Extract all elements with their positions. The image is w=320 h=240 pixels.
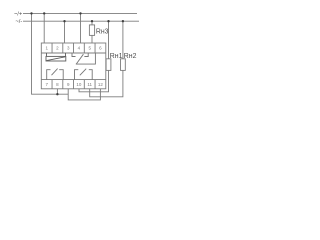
contact group top (pins 4-5-6) [72,53,95,64]
wire Rn2 drop from rail2 [122,21,124,59]
rail ~/+ [23,12,137,14]
node rail2 / Rn1 [107,20,109,22]
pin numbers 1-6 [45,46,102,51]
svg-text:7: 7 [45,82,48,87]
svg-text:~/+: ~/+ [14,11,23,17]
node rail2 / Rn3 [91,20,93,22]
node rail1 / left drop [30,12,32,14]
contact group bottom-right (pins 10-11-12) [75,69,93,80]
svg-text:11: 11 [87,82,92,87]
wire Rn3 to pin5 [91,35,93,43]
svg-text:3: 3 [67,46,70,51]
wire pin9 to pin12 link [68,89,100,100]
resistor Rn2 [121,59,126,71]
svg-text:9: 9 [67,82,70,87]
svg-text:Rн2: Rн2 [124,53,137,60]
svg-text:6: 6 [99,46,102,51]
svg-text:12: 12 [98,82,104,87]
svg-text:2: 2 [56,46,59,51]
pin cell dividers bottom [52,80,95,89]
resistor Rn3 [89,25,94,36]
svg-text:Rн3: Rн3 [96,29,109,36]
resistor Rn1 [106,59,111,71]
coil K1 [46,53,66,61]
junction dots [30,12,124,95]
wire Rn1 drop from rail2 [108,21,110,59]
pin cell dividers top [52,43,95,53]
svg-text:4: 4 [78,46,81,51]
wire Rn2 bottom to pin11 [90,70,123,96]
node rail2 / Rn2 [122,20,124,22]
wire Rn1 bottom to pin10 [79,70,109,91]
svg-text:~/-: ~/- [15,19,22,25]
pin numbers 7-12 [45,82,103,87]
node rail1 / pin1 [43,12,45,14]
wire pin1 drop from rail1 [43,13,45,43]
wire left drop from rail1 to bottom bus [32,13,69,94]
rail ~/- [23,20,139,22]
svg-text:5: 5 [88,46,91,51]
relay outline U1 [41,43,106,89]
svg-text:Rн1: Rн1 [110,53,123,60]
contact group bottom-left (pins 7-8-9) [47,69,64,80]
svg-text:1: 1 [45,46,48,51]
wire pin3 drop from rail2 [64,21,66,43]
node bus / pin8 [56,93,58,95]
node rail2 / pin3 [63,20,65,22]
wire pin4 drop from rail1 [80,13,82,43]
wire pin8 stub to bottom bus [56,89,58,94]
node rail1 / pin4 [79,12,81,14]
svg-text:8: 8 [56,82,59,87]
svg-text:10: 10 [76,82,82,87]
wire Rn3 top stub from rail2 [91,21,93,25]
